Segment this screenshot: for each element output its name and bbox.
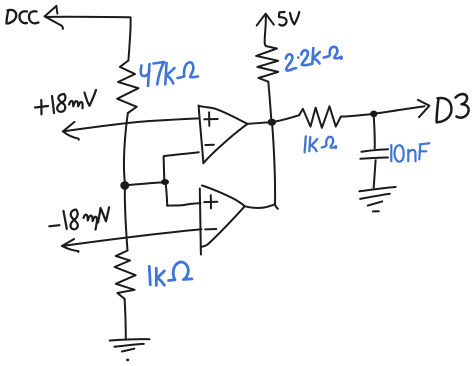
node A (junction dot) — [120, 181, 129, 190]
net label +18mV — [35, 90, 96, 114]
wire node B down to op-amp U2 plus input — [166, 182, 201, 206]
wire node A down to resistor R2 — [125, 185, 128, 251]
value label 1kOhm (R2) — [149, 262, 192, 285]
node D (junction dot) — [370, 111, 377, 118]
wire op-amp U2 output to vertical feedback line — [245, 204, 275, 208]
net label -18mV — [49, 207, 109, 229]
value label 47kOhm — [141, 62, 198, 86]
wire node D to D3 output arrow — [377, 106, 425, 113]
wire 47k bottom to node A — [124, 113, 128, 184]
ground GND2 — [359, 187, 395, 191]
wire node B up to op-amp U1 minus input — [164, 152, 199, 181]
wire node C to resistor R4 — [276, 115, 300, 121]
wire DCC arrow to 47k resistor — [45, 6, 58, 17]
resistor R4 1k — [299, 106, 341, 128]
wire +18mV input arrow to op-amp U1 plus input — [63, 118, 199, 131]
net label D3 — [437, 94, 469, 122]
value label 10nF — [391, 143, 429, 161]
wire node A to node B — [125, 182, 165, 185]
wire capacitor C1 to ground — [374, 160, 376, 187]
net label DCC — [7, 10, 39, 24]
net label 5V — [279, 12, 299, 26]
wire -18mV input arrow to op-amp U2 minus input — [62, 229, 202, 246]
wire R3 bottom to node C — [268, 82, 271, 119]
resistor R3 2.2k — [256, 46, 278, 81]
op-amp U1 — [199, 106, 204, 164]
value label 1kOhm (R4) — [305, 136, 337, 152]
op-amp U2 — [200, 189, 201, 255]
node C (junction dot) — [268, 119, 276, 126]
node B (junction dot) — [161, 179, 169, 185]
power 5V arrow — [257, 14, 266, 26]
capacitor C1 — [361, 149, 388, 152]
value label 2.2kOhm — [286, 47, 342, 71]
wire node D down to capacitor C1 — [373, 118, 376, 149]
wire R2 to ground — [125, 299, 126, 339]
resistor R2 1k — [115, 251, 136, 299]
ground GND1 — [110, 339, 150, 340]
wire node C down to op-amp U2 output — [272, 123, 278, 209]
wire op-amp U1 output to node C — [247, 122, 270, 124]
wire R4 to node D — [341, 114, 372, 116]
resistor R1 47k — [117, 61, 138, 114]
